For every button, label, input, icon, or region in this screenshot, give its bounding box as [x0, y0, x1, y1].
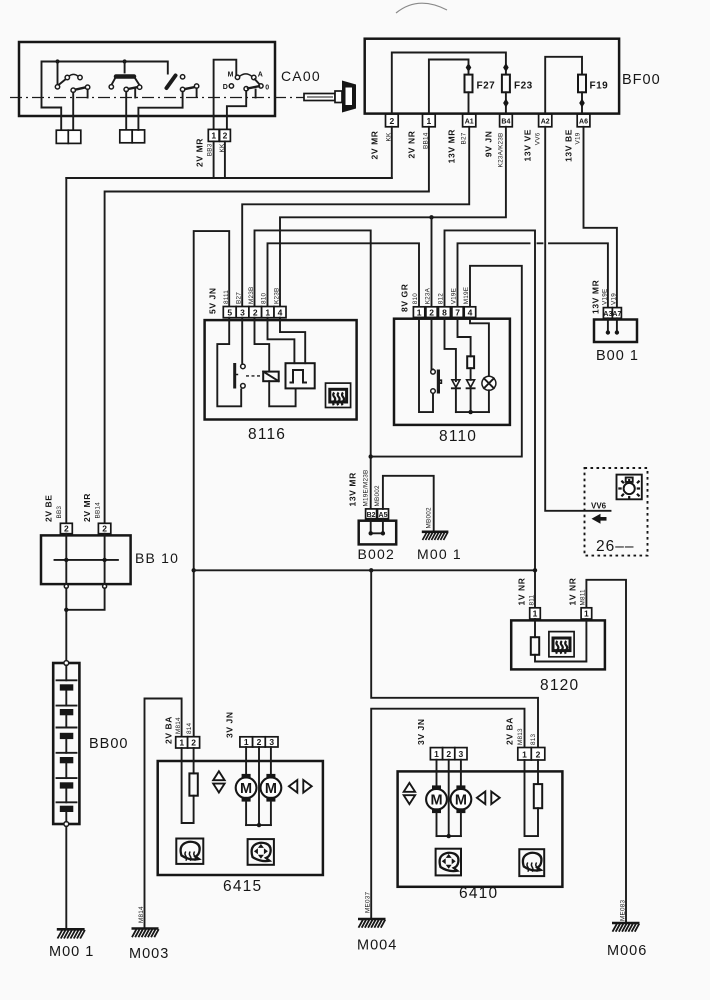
svg-text:5V JN: 5V JN — [208, 287, 218, 314]
connector 6410 2VBA pin 1 — [518, 748, 532, 761]
svg-text:1: 1 — [584, 609, 589, 619]
wire BB3 left vertical to BB10 — [65, 178, 67, 523]
svg-text:B27: B27 — [236, 292, 243, 304]
connector 6410 3VJN pin 1 — [430, 748, 442, 760]
svg-text:M004: M004 — [357, 938, 397, 954]
svg-text:1: 1 — [244, 737, 249, 747]
svg-text:V19: V19 — [575, 132, 582, 144]
centre dash-dot line — [10, 97, 308, 99]
defrost icon 8120 — [549, 632, 574, 657]
connector 8110 pin 4 — [464, 307, 476, 318]
svg-text:810: 810 — [261, 292, 268, 304]
ground M003 — [132, 929, 159, 938]
arrow up (6415) — [213, 771, 224, 780]
tap diamond F23 bottom — [503, 99, 509, 108]
wire 8110 pin1 internal — [419, 317, 433, 412]
wire 8116 pin3 internal — [241, 318, 243, 364]
motor M1 (6410) — [426, 760, 447, 836]
svg-text:13V BE: 13V BE — [564, 129, 574, 162]
svg-text:B27: B27 — [461, 132, 468, 144]
connector 8120 pin 1 (811) — [530, 608, 541, 619]
svg-text:M814: M814 — [175, 717, 182, 734]
wire V19 BF00 A6 to B001 A7 — [584, 127, 617, 308]
svg-text:9V JN: 9V JN — [484, 131, 494, 158]
connector 6415 3VJN pin 3 — [265, 737, 278, 747]
tap diamond F23 top — [503, 63, 509, 72]
svg-text:4: 4 — [278, 308, 283, 318]
connector 8110 pin 2 — [426, 307, 437, 318]
BB10 internal bus — [55, 559, 118, 561]
svg-text:1: 1 — [265, 308, 270, 318]
relay actuation dashed link — [246, 375, 263, 377]
svg-text:A3: A3 — [603, 311, 612, 318]
relay coil — [263, 372, 279, 382]
BB10 output terminals — [64, 584, 68, 588]
svg-text:A1: A1 — [465, 118, 474, 125]
wire MB002 A5 to ground — [383, 476, 434, 531]
connector BF00 pin A6 — [577, 114, 590, 127]
wire V19E 8110 pin7 to B001 A3 — [458, 243, 608, 307]
ground M001 — [57, 929, 85, 938]
svg-text:8116: 8116 — [248, 426, 286, 443]
svg-text:2: 2 — [102, 524, 107, 534]
BB10 box — [41, 535, 131, 584]
junction M19E/M23B — [369, 454, 373, 458]
svg-text:3: 3 — [269, 737, 274, 747]
svg-text:M003: M003 — [129, 946, 169, 962]
motor M2 (6415) — [261, 747, 282, 825]
svg-text:1V NR: 1V NR — [568, 577, 578, 605]
svg-text:1V NR: 1V NR — [517, 577, 527, 605]
svg-text:2V MR: 2V MR — [370, 131, 380, 160]
svg-text:K23A/K23B: K23A/K23B — [498, 133, 505, 168]
connector B001 pin A3 — [603, 308, 612, 319]
ground M006 — [612, 923, 640, 932]
svg-text:26––: 26–– — [596, 538, 634, 555]
wire 8110 pin7 to resistor — [458, 317, 471, 356]
connector 6410 3VJN pin 3 — [455, 748, 467, 760]
wire 6415 heater element — [182, 748, 194, 823]
wire K23A drop to 8110 pin2 — [431, 217, 433, 306]
internal rail pin2 to F23 — [392, 53, 506, 115]
connector BB10 pin 2b — [98, 523, 110, 533]
svg-text:7: 7 — [455, 307, 460, 317]
tap diamond F19 bottom — [579, 99, 585, 108]
heated mirror icon (6415) — [176, 839, 203, 864]
wire B27 BF00 A1 to 8116 pin3 — [242, 127, 469, 307]
svg-text:V19E: V19E — [451, 288, 458, 304]
relay contact blade — [233, 363, 236, 389]
ground M004 — [358, 919, 386, 928]
svg-text:1: 1 — [179, 738, 184, 748]
heater resistor 6410 — [534, 784, 542, 808]
svg-text:M006: M006 — [607, 943, 647, 959]
connector 6415 3VJN pin 1 — [240, 737, 253, 747]
svg-text:V19E: V19E — [601, 289, 608, 305]
svg-text:V19: V19 — [610, 293, 617, 305]
wire BB3 CA00 pin1 down — [213, 141, 215, 178]
svg-text:B4: B4 — [501, 118, 510, 125]
svg-text:4: 4 — [468, 307, 473, 317]
wire 6410 heater element — [525, 760, 539, 836]
diode D2 — [467, 368, 475, 412]
svg-text:B002: B002 — [358, 546, 396, 562]
connector 6415 2VBA pin 2 — [188, 737, 200, 748]
mirror adjust icon (6415) — [248, 839, 274, 865]
svg-text:M19E/M23B: M19E/M23B — [363, 470, 370, 507]
svg-text:M: M — [240, 781, 252, 797]
illumination lamp icon — [617, 475, 642, 500]
svg-text:2: 2 — [429, 307, 434, 317]
svg-text:CA00: CA00 — [281, 68, 321, 84]
heated mirror icon (6410) — [519, 849, 544, 876]
6410 box — [398, 771, 563, 886]
svg-text:8V GR: 8V GR — [400, 283, 410, 312]
connector 8116 pin 2 — [249, 307, 262, 318]
diode common rail — [456, 411, 489, 413]
fuse box BF00 — [365, 39, 619, 114]
fuse F23 — [502, 75, 510, 93]
arrow right (6410) — [491, 792, 499, 805]
svg-text:M23B: M23B — [248, 287, 255, 305]
fuse F19 — [578, 75, 586, 93]
wire KK/BB3 horizontal bus — [66, 177, 392, 179]
wire 8116 pin4 to pulse box — [280, 318, 305, 364]
svg-text:2V BA: 2V BA — [505, 717, 515, 745]
connector 8116 pin 1 — [262, 307, 274, 318]
switch contact group 1 — [55, 62, 90, 131]
wire K23A/K23B from BF00 B4 — [280, 127, 506, 307]
svg-text:D: D — [223, 84, 228, 91]
connector 6415 2VBA pin 1 — [176, 737, 188, 748]
wire M814 6415 pin1 to M003 — [145, 699, 182, 929]
svg-text:F19: F19 — [590, 81, 609, 92]
wire BB14 BF00 pin1 to BB10 — [105, 127, 429, 524]
internal rail pinA2 to F19 — [545, 57, 582, 115]
connector 8110 pin 1 — [413, 307, 424, 318]
wire 812 8110 pin8 to 8120 — [445, 230, 536, 607]
connector 8110 pin 7 — [452, 307, 463, 318]
wire 8116 pin2 to coil — [255, 318, 270, 372]
connector BF00 pin B4 — [500, 114, 513, 127]
svg-text:F23: F23 — [514, 81, 533, 92]
connector 8116 pin 5 — [223, 307, 236, 318]
arrow right (6415) — [303, 780, 311, 793]
switch unit 8110 box — [394, 319, 510, 425]
svg-text:A2: A2 — [541, 118, 550, 125]
svg-text:2V MR: 2V MR — [195, 138, 205, 167]
battery BB00 — [53, 661, 79, 827]
connector BF00 pin 1 — [423, 114, 436, 127]
arrow down (6415) — [213, 784, 224, 793]
ignition contact group M A D 0 — [214, 60, 270, 130]
junction 811 — [533, 568, 537, 572]
svg-text:BB 10: BB 10 — [135, 550, 179, 566]
svg-text:8111: 8111 — [223, 290, 230, 304]
wire 813 to 6410 pin2 — [371, 570, 538, 747]
svg-text:MB002: MB002 — [426, 507, 433, 528]
ground M001b — [422, 532, 449, 540]
svg-text:13V MR: 13V MR — [348, 472, 358, 506]
relay unit 8116 box — [205, 320, 357, 419]
svg-text:M: M — [228, 72, 234, 79]
svg-text:M19E: M19E — [463, 287, 470, 305]
svg-text:1: 1 — [211, 131, 216, 141]
svg-text:K23B: K23B — [274, 288, 281, 304]
connector 6410 2VBA pin 2 — [531, 748, 545, 761]
svg-text:A: A — [258, 72, 263, 79]
svg-text:BB14: BB14 — [94, 502, 101, 519]
connector 8116 pin 3 — [236, 307, 249, 318]
tap diamond F27 top — [466, 63, 472, 72]
arrow left (6410) — [477, 792, 485, 805]
connector 6410 3VJN pin 2 — [443, 748, 455, 760]
svg-text:2: 2 — [257, 737, 262, 747]
svg-text:VV6: VV6 — [535, 132, 542, 145]
arrow down (6410) — [404, 795, 415, 804]
connector B002 pin A5 — [378, 509, 389, 519]
connector 8120 pin 1 (M811) — [581, 608, 592, 619]
wire coil to pulse box — [269, 381, 295, 406]
wire battery negative to M001 — [65, 826, 67, 928]
svg-text:F27: F27 — [477, 81, 496, 92]
arrow VV6 into panel — [592, 514, 607, 524]
svg-text:2: 2 — [536, 749, 541, 759]
svg-text:2: 2 — [191, 738, 196, 748]
scan artifact curve top — [396, 3, 447, 13]
svg-text:1: 1 — [533, 609, 538, 619]
svg-text:BB00: BB00 — [89, 736, 128, 752]
svg-text:8: 8 — [442, 307, 447, 317]
switch unit CA00 box — [19, 42, 275, 116]
junction 813 branch — [369, 568, 373, 572]
B002 box — [359, 521, 397, 545]
svg-text:3: 3 — [459, 749, 464, 759]
svg-text:A6: A6 — [579, 118, 588, 125]
connector 8110 pin 8 — [439, 307, 451, 318]
svg-text:812: 812 — [438, 293, 445, 305]
svg-text:0: 0 — [265, 84, 269, 91]
wire M813 6410 pin1 to M004 — [371, 709, 524, 919]
svg-text:813: 813 — [530, 733, 537, 745]
svg-text:M00 1: M00 1 — [417, 546, 462, 562]
svg-text:2V MR: 2V MR — [82, 493, 92, 522]
junction K23A — [429, 215, 433, 219]
svg-text:6410: 6410 — [459, 885, 498, 902]
relay contact circles — [241, 364, 246, 369]
wire 8116 pin5 internal — [217, 318, 241, 407]
6415 box — [158, 761, 323, 875]
connector BB10 pin 2a — [60, 523, 72, 533]
svg-text:811: 811 — [529, 594, 536, 605]
svg-text:3: 3 — [240, 308, 245, 318]
heater resistor 6415 — [189, 773, 197, 795]
junction node bus-2 — [123, 59, 127, 63]
svg-text:M: M — [430, 793, 442, 809]
svg-text:1: 1 — [427, 116, 432, 126]
switch contact group 3 — [138, 75, 198, 130]
svg-text:2: 2 — [390, 116, 395, 126]
wire KK riser to BF00 pin2 — [391, 127, 393, 178]
svg-text:13V MR: 13V MR — [447, 129, 457, 163]
arrow left (6415) — [289, 780, 297, 793]
connector BF00 pin A2 — [539, 114, 552, 127]
wire 8110 pin2 internal — [432, 317, 434, 369]
connector BF00 pin A1 — [463, 114, 476, 127]
wire M811 8120 to M006 — [586, 580, 626, 923]
svg-text:1: 1 — [434, 749, 439, 759]
svg-text:ME083: ME083 — [619, 900, 626, 921]
connector B001 pin A7 — [612, 308, 621, 319]
svg-text:BB3: BB3 — [56, 506, 63, 519]
mirror adjust icon (6410) — [436, 849, 461, 876]
wire M19E 8110 pin4 to B002 — [371, 266, 522, 457]
diode D1 — [452, 380, 460, 412]
svg-text:13V MR: 13V MR — [591, 280, 601, 314]
junction 8111/814 — [192, 568, 196, 572]
BB10 internal pin wires — [66, 534, 104, 584]
push button plunger — [437, 370, 440, 394]
resistor 8110 — [467, 356, 474, 368]
connector block group1 — [56, 130, 68, 143]
bus left leg to connector — [42, 108, 62, 131]
connector B002 pin B2 — [366, 509, 377, 519]
connector block group2 — [120, 130, 132, 143]
svg-text:2V BA: 2V BA — [164, 716, 174, 744]
junction node bus-1 — [55, 59, 59, 63]
motor M1 (6415) — [236, 747, 257, 825]
wire 8110 pin4 to lamp — [470, 317, 489, 376]
svg-text:3V JN: 3V JN — [225, 711, 235, 738]
wire 8110 pin8 to diode1 — [445, 317, 456, 381]
svg-text:810: 810 — [412, 293, 419, 305]
junction diode rail — [468, 410, 472, 414]
wire BB10 outputs merge — [66, 588, 104, 661]
svg-text:8120: 8120 — [540, 677, 579, 694]
wire 811 feed bus horizontal — [194, 569, 535, 571]
svg-text:BB3: BB3 — [207, 143, 214, 156]
svg-text:B00 1: B00 1 — [596, 348, 639, 364]
panel 26 dashed box — [585, 468, 648, 556]
B001 box — [594, 320, 637, 343]
connector 8116 pin 4 — [274, 307, 286, 318]
svg-text:814: 814 — [186, 722, 193, 734]
svg-text:2: 2 — [223, 131, 228, 141]
svg-text:M: M — [265, 781, 277, 797]
svg-text:ME037: ME037 — [364, 892, 371, 913]
connector BF00 pin 2 — [386, 114, 399, 127]
wire VV6 BF00 A2 to panel 26 — [545, 127, 610, 511]
8120 box — [511, 620, 605, 669]
wire 8111 8116 pin5 to 6415 — [194, 231, 230, 737]
B002 internal pins — [371, 519, 383, 534]
connector 6415 3VJN pin 2 — [253, 737, 266, 747]
pulse waveform — [290, 370, 308, 383]
push button contacts — [431, 370, 436, 375]
defrost icon 8116 — [326, 383, 351, 407]
connector CA00 pin 2 — [220, 129, 231, 141]
svg-text:6415: 6415 — [223, 878, 262, 895]
ignition key symbol — [304, 81, 356, 113]
svg-text:A7: A7 — [612, 311, 621, 318]
svg-text:VV6: VV6 — [591, 502, 607, 511]
wire KK CA00 pin2 down — [224, 141, 226, 178]
svg-text:2: 2 — [446, 749, 451, 759]
svg-text:1: 1 — [417, 307, 422, 317]
wire 8116 pin1 to pulse box — [268, 318, 295, 364]
svg-text:5: 5 — [227, 308, 232, 318]
fuse F27 — [465, 75, 473, 93]
wire motor common (6410) — [437, 760, 461, 836]
motor M2 (6410) — [451, 760, 472, 836]
wire 810 8116 pin1 to 8110 pin1 — [268, 243, 420, 306]
B001 internal pins — [608, 318, 617, 332]
svg-text:MB002: MB002 — [374, 485, 381, 506]
arrow up (6410) — [404, 783, 415, 792]
indicator lamp — [482, 376, 496, 412]
svg-text:M813: M813 — [517, 728, 524, 745]
svg-text:BF00: BF00 — [622, 72, 661, 88]
svg-text:1: 1 — [522, 749, 527, 759]
resistor element 8120 — [531, 637, 539, 655]
wire motor common (6415) — [246, 747, 271, 825]
svg-text:M814: M814 — [138, 906, 145, 923]
wire 8120 element — [535, 619, 586, 662]
internal supply bus — [42, 62, 168, 108]
svg-text:2: 2 — [64, 524, 69, 534]
svg-text:2: 2 — [253, 308, 258, 318]
svg-text:M811: M811 — [580, 589, 587, 606]
svg-text:M00 1: M00 1 — [49, 944, 94, 960]
pulse timer box — [286, 363, 315, 388]
svg-text:13V VE: 13V VE — [523, 129, 533, 161]
svg-text:8110: 8110 — [439, 428, 477, 445]
connector CA00 pin 1 — [208, 129, 219, 141]
svg-text:2V NR: 2V NR — [407, 131, 417, 159]
svg-text:2V BE: 2V BE — [44, 494, 54, 522]
svg-text:K23A: K23A — [425, 287, 432, 304]
svg-text:3V JN: 3V JN — [416, 718, 426, 745]
internal rail pin1 to F27 — [429, 60, 469, 115]
switch contact group 2 — [109, 62, 142, 131]
wire M23B 8116 pin2 to B002 — [255, 230, 371, 509]
svg-text:M: M — [455, 793, 467, 809]
